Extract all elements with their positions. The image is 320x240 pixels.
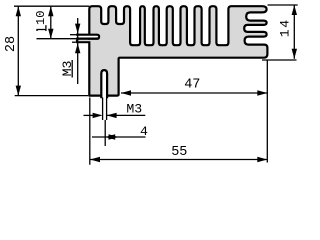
M3 tab ext bottom bbox=[72, 41, 76, 43]
svg-text:14: 14 bbox=[278, 18, 293, 37]
M3 bottom ext right bbox=[106, 98, 108, 121]
M3 bottom tail right bbox=[107, 114, 146, 116]
M3 solder-tab with slit, left side bbox=[76, 34, 100, 44]
svg-text:4: 4 bbox=[140, 124, 148, 139]
ext bottom-right (dim 14) bbox=[262, 59, 297, 61]
arrowheads bbox=[16, 6, 21, 16]
M3 bottom tail left bbox=[84, 114, 98, 116]
M3 left underline bbox=[71, 60, 73, 78]
svg-text:47: 47 bbox=[184, 78, 200, 93]
M3 tab ext top bbox=[70, 34, 76, 36]
extension line top-left bbox=[14, 5, 89, 7]
dim 10 line bbox=[50, 6, 52, 39]
dim 55 line bbox=[90, 159, 267, 161]
slit ext line (dim 10) bbox=[37, 38, 76, 40]
svg-text:28: 28 bbox=[4, 36, 19, 52]
svg-text:M3: M3 bbox=[126, 102, 142, 117]
svg-text:10: 10 bbox=[34, 11, 48, 25]
dim 10 underline mark bbox=[37, 30, 46, 32]
right ext vertical bbox=[266, 60, 268, 163]
dim 4 ext line bbox=[104, 120, 106, 146]
dim M3 left line bbox=[77, 18, 79, 84]
dim 47 line bbox=[121, 92, 267, 94]
heatsink extruded profile (cross-section) bbox=[89, 6, 267, 95]
dim 4 line bbox=[92, 136, 146, 138]
dim 14 line bbox=[293, 5, 295, 59]
svg-text:M3: M3 bbox=[60, 61, 75, 77]
M3 screw slot, bottom of mounting wall bbox=[101, 70, 107, 98]
wall-left ext vertical bbox=[89, 98, 91, 165]
svg-text:55: 55 bbox=[171, 145, 187, 160]
M3 bottom ext left bbox=[102, 98, 104, 121]
ext top-right (dim 14) bbox=[268, 4, 298, 6]
extension line bottom-left bbox=[15, 95, 89, 97]
dim 28 line bbox=[17, 6, 19, 95]
